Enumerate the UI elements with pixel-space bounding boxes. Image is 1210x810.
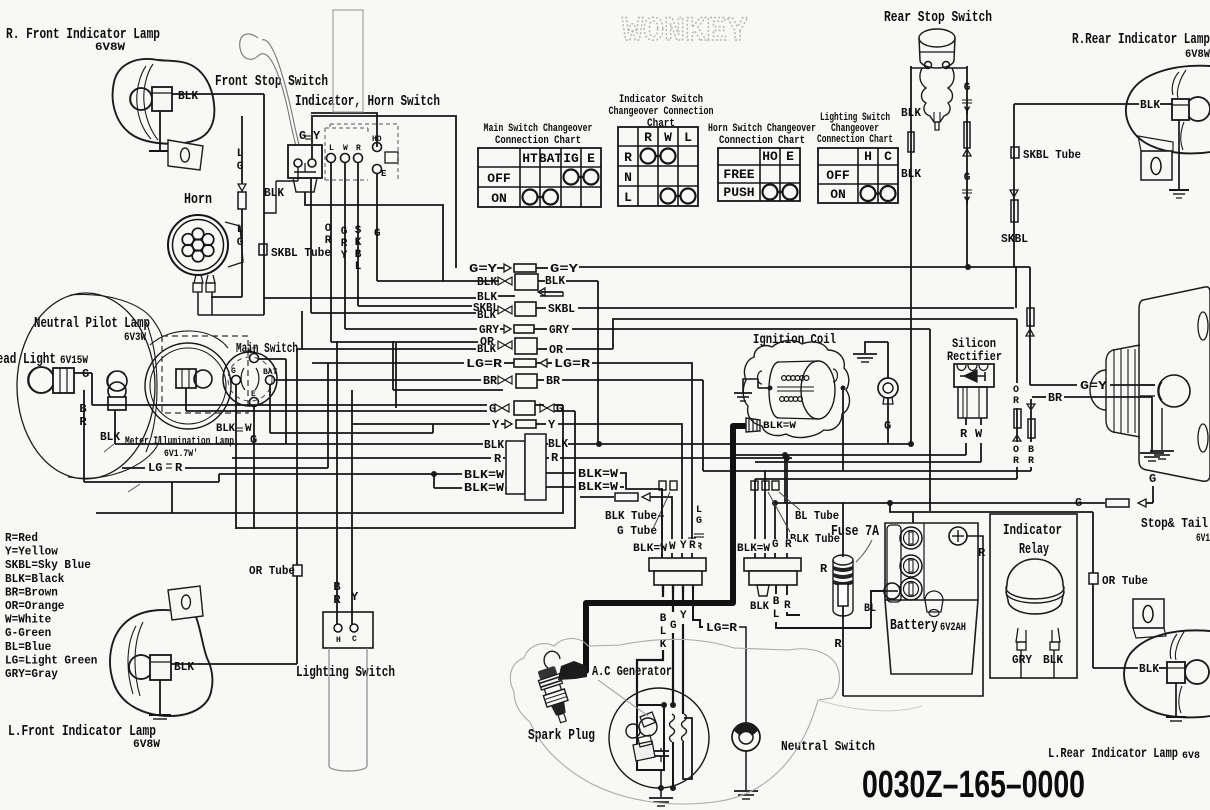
svg-text:L: L xyxy=(660,626,667,638)
svg-text:Horn Switch Changeover: Horn Switch Changeover xyxy=(708,123,816,135)
svg-text:BLK Tube: BLK Tube xyxy=(790,532,840,546)
svg-text:R: R xyxy=(1013,456,1019,467)
svg-text:R.Rear Indicator Lamp: R.Rear Indicator Lamp xyxy=(1072,31,1210,48)
svg-text:R: R xyxy=(551,451,559,465)
svg-text:G: G xyxy=(237,161,244,173)
svg-text:GRY: GRY xyxy=(1012,653,1033,667)
svg-text:R: R xyxy=(1028,456,1034,467)
svg-text:C: C xyxy=(884,149,892,164)
svg-text:Relay: Relay xyxy=(1019,541,1049,558)
svg-text:6V1: 6V1 xyxy=(1196,533,1210,545)
svg-text:6V8: 6V8 xyxy=(1182,751,1200,762)
svg-text:0030Z–165–0000: 0030Z–165–0000 xyxy=(862,764,1085,806)
svg-text:O: O xyxy=(1013,445,1019,456)
svg-text:BLK: BLK xyxy=(901,167,922,181)
svg-text:G: G xyxy=(696,516,702,527)
svg-text:6V8W: 6V8W xyxy=(133,739,160,751)
svg-text:OR Tube: OR Tube xyxy=(1102,574,1148,588)
svg-text:BLK: BLK xyxy=(1139,662,1160,676)
svg-text:BLK=Black: BLK=Black xyxy=(5,572,64,586)
svg-text:BLK: BLK xyxy=(477,344,496,356)
svg-text:G: G xyxy=(237,237,244,249)
svg-text:R=Red: R=Red xyxy=(5,531,38,545)
svg-text:C: C xyxy=(352,635,357,644)
svg-text:S: S xyxy=(355,225,362,237)
svg-text:H: H xyxy=(864,149,872,164)
svg-text:Main Switch: Main Switch xyxy=(236,341,298,357)
svg-text:Head Light: Head Light xyxy=(0,351,56,368)
svg-text:LG=R: LG=R xyxy=(466,357,503,371)
svg-text:OR=Orange: OR=Orange xyxy=(5,599,64,613)
svg-text:BAT: BAT xyxy=(263,368,278,377)
svg-text:SKBL Tube: SKBL Tube xyxy=(1023,148,1081,162)
svg-text:R: R xyxy=(978,546,986,560)
svg-text:R: R xyxy=(644,130,652,145)
svg-text:L: L xyxy=(684,130,692,145)
svg-text:Y: Y xyxy=(680,610,687,622)
svg-text:E: E xyxy=(381,169,387,179)
svg-text:B: B xyxy=(660,613,667,625)
svg-text:G: G xyxy=(772,539,779,551)
svg-text:K: K xyxy=(355,237,362,249)
svg-text:OR: OR xyxy=(549,343,564,357)
svg-text:BL Tube: BL Tube xyxy=(795,509,839,523)
svg-text:LG=R: LG=R xyxy=(706,621,738,635)
svg-text:ON: ON xyxy=(491,191,507,206)
svg-text:HT: HT xyxy=(522,151,538,166)
svg-text:L: L xyxy=(773,609,780,621)
svg-text:G: G xyxy=(1075,496,1082,510)
svg-text:Indicator: Indicator xyxy=(1003,522,1062,539)
svg-text:R: R xyxy=(175,461,183,475)
svg-text:Y: Y xyxy=(341,250,348,262)
svg-text:SKBL: SKBL xyxy=(1001,232,1028,246)
svg-text:Chart: Chart xyxy=(647,118,675,130)
svg-text:SKBL: SKBL xyxy=(548,302,575,316)
svg-text:BR=Brown: BR=Brown xyxy=(5,585,58,599)
svg-text:BAT: BAT xyxy=(539,151,563,166)
svg-text:BR: BR xyxy=(1048,391,1063,405)
svg-text:WONKEY: WONKEY xyxy=(622,13,749,51)
svg-text:Connection Chart: Connection Chart xyxy=(817,134,893,146)
svg-text:Y=Yellow: Y=Yellow xyxy=(5,545,59,559)
svg-text:Y: Y xyxy=(548,418,556,432)
svg-text:HO: HO xyxy=(372,135,382,144)
svg-text:G-Green: G-Green xyxy=(5,626,51,640)
svg-text:LG: LG xyxy=(148,461,162,475)
svg-text:Y: Y xyxy=(492,418,500,432)
svg-text:BLK Tube: BLK Tube xyxy=(605,509,657,523)
svg-text:R: R xyxy=(834,637,842,651)
svg-text:Neutral Switch: Neutral Switch xyxy=(781,739,875,755)
svg-text:LG=Light Green: LG=Light Green xyxy=(5,653,97,667)
svg-text:R: R xyxy=(784,600,791,612)
svg-text:SKBL=Sky Blue: SKBL=Sky Blue xyxy=(5,558,91,572)
svg-text:BLK=W: BLK=W xyxy=(464,481,505,495)
svg-text:BR: BR xyxy=(483,374,498,388)
svg-text:FREE: FREE xyxy=(723,167,754,182)
svg-text:G: G xyxy=(670,620,677,632)
svg-text:6V15W: 6V15W xyxy=(60,355,88,367)
svg-text:Battery: Battery xyxy=(890,617,938,634)
svg-text:G=Y: G=Y xyxy=(469,262,498,276)
svg-text:H: H xyxy=(336,636,341,645)
svg-text:N: N xyxy=(624,170,632,185)
svg-text:R. Front Indicator Lamp: R. Front Indicator Lamp xyxy=(6,26,160,43)
svg-text:HT: HT xyxy=(247,347,257,356)
svg-text:BLK: BLK xyxy=(477,310,496,322)
svg-text:W: W xyxy=(343,144,348,153)
svg-text:L.Front Indicator Lamp: L.Front Indicator Lamp xyxy=(8,723,156,740)
svg-text:BLK=W: BLK=W xyxy=(464,468,505,482)
svg-text:L: L xyxy=(355,261,362,273)
svg-text:G: G xyxy=(374,228,381,240)
svg-text:HO: HO xyxy=(762,149,778,164)
svg-text:R: R xyxy=(494,452,502,466)
svg-text:Spark Plug: Spark Plug xyxy=(528,727,595,744)
svg-text:6V2AH: 6V2AH xyxy=(940,622,966,634)
svg-text:BLK=W: BLK=W xyxy=(578,467,619,481)
svg-text:Connection Chart: Connection Chart xyxy=(719,135,805,147)
svg-text:R: R xyxy=(341,238,348,250)
svg-text:Y: Y xyxy=(964,106,971,118)
svg-text:L: L xyxy=(237,148,244,160)
svg-text:Indicator, Horn Switch: Indicator, Horn Switch xyxy=(295,93,440,110)
svg-text:L: L xyxy=(696,505,702,516)
svg-text:A.C Generator: A.C Generator xyxy=(592,664,672,680)
svg-text:K: K xyxy=(660,639,667,651)
svg-text:W=White: W=White xyxy=(5,613,51,627)
svg-text:Lighting Switch: Lighting Switch xyxy=(296,664,395,681)
svg-text:BL: BL xyxy=(864,603,876,615)
svg-text:Connection Chart: Connection Chart xyxy=(495,135,581,147)
svg-text:B: B xyxy=(355,249,362,261)
svg-text:Main Switch Changeover: Main Switch Changeover xyxy=(484,123,593,135)
svg-text:BLK: BLK xyxy=(901,106,922,120)
svg-text:O: O xyxy=(325,223,332,235)
svg-text:W: W xyxy=(669,541,676,553)
svg-text:L: L xyxy=(624,190,632,205)
svg-text:Rear Stop Switch: Rear Stop Switch xyxy=(884,9,992,26)
svg-text:E: E xyxy=(587,151,595,166)
svg-text:E: E xyxy=(786,149,794,164)
svg-text:BLK: BLK xyxy=(264,186,285,200)
svg-text:BLK=W: BLK=W xyxy=(578,480,619,494)
svg-text:O: O xyxy=(1013,385,1019,396)
svg-text:R: R xyxy=(1013,396,1019,407)
svg-text:R: R xyxy=(689,540,696,552)
svg-text:Horn: Horn xyxy=(184,191,212,208)
svg-text:BLK: BLK xyxy=(548,437,569,451)
svg-text:G Tube: G Tube xyxy=(617,524,657,538)
svg-text:R: R xyxy=(960,427,968,441)
svg-text:W: W xyxy=(975,427,983,441)
svg-text:IG: IG xyxy=(563,151,579,166)
svg-text:R: R xyxy=(785,539,792,551)
svg-text:BLK: BLK xyxy=(477,275,498,289)
svg-text:G: G xyxy=(1149,472,1156,486)
svg-text:SKBL Tube: SKBL Tube xyxy=(271,246,331,260)
svg-text:G: G xyxy=(964,82,971,94)
svg-text:B: B xyxy=(773,596,780,608)
svg-text:BLK: BLK xyxy=(178,89,199,103)
svg-text:BLK: BLK xyxy=(545,274,566,288)
svg-text:R: R xyxy=(624,150,632,165)
svg-text:R: R xyxy=(820,562,828,576)
svg-text:G: G xyxy=(964,172,971,184)
svg-text:L: L xyxy=(329,144,334,153)
svg-text:OFF: OFF xyxy=(826,168,850,183)
svg-text:G: G xyxy=(231,367,236,376)
svg-text:E: E xyxy=(251,390,256,399)
svg-text:R: R xyxy=(356,144,361,153)
svg-text:Y: Y xyxy=(964,196,971,208)
svg-text:BL=Blue: BL=Blue xyxy=(5,640,51,654)
svg-text:Y: Y xyxy=(313,129,321,143)
svg-text:B: B xyxy=(79,402,86,416)
svg-text:BLK: BLK xyxy=(1140,98,1161,112)
svg-text:L.Rear Indicator Lamp: L.Rear Indicator Lamp xyxy=(1048,747,1178,762)
svg-text:LG=R: LG=R xyxy=(554,357,591,371)
svg-text:BLK=W: BLK=W xyxy=(763,421,796,432)
svg-text:W: W xyxy=(664,130,672,145)
svg-text:ON: ON xyxy=(830,187,846,202)
svg-text:Stop& Tail: Stop& Tail xyxy=(1141,516,1208,532)
svg-text:6V8W: 6V8W xyxy=(1185,49,1210,61)
svg-text:Front Stop Switch: Front Stop Switch xyxy=(215,73,328,90)
svg-text:BLK: BLK xyxy=(484,438,505,452)
svg-text:Y: Y xyxy=(680,540,687,552)
svg-text:GRY=Gray: GRY=Gray xyxy=(5,667,58,681)
svg-text:B: B xyxy=(1028,445,1034,456)
svg-text:6V1.7W': 6V1.7W' xyxy=(164,448,198,460)
svg-text:OFF: OFF xyxy=(487,171,511,186)
svg-text:BR: BR xyxy=(546,374,561,388)
svg-text:G=Y: G=Y xyxy=(1080,379,1108,393)
svg-text:Rectifier: Rectifier xyxy=(947,349,1002,364)
svg-text:PUSH: PUSH xyxy=(723,185,754,200)
svg-text:BLK: BLK xyxy=(216,423,235,435)
svg-text:GRY: GRY xyxy=(549,323,570,337)
svg-text:G: G xyxy=(341,226,348,238)
svg-text:BLK: BLK xyxy=(100,430,121,444)
svg-text:Indicator Switch: Indicator Switch xyxy=(619,94,703,106)
svg-text:G: G xyxy=(82,367,89,381)
svg-text:BLK=W: BLK=W xyxy=(737,543,770,555)
svg-text:OR Tube: OR Tube xyxy=(249,564,295,578)
svg-text:BLK: BLK xyxy=(174,660,195,674)
svg-text:BLK: BLK xyxy=(750,601,769,613)
svg-text:Changeover Connection: Changeover Connection xyxy=(609,106,714,118)
svg-text:6V8W: 6V8W xyxy=(95,42,125,54)
